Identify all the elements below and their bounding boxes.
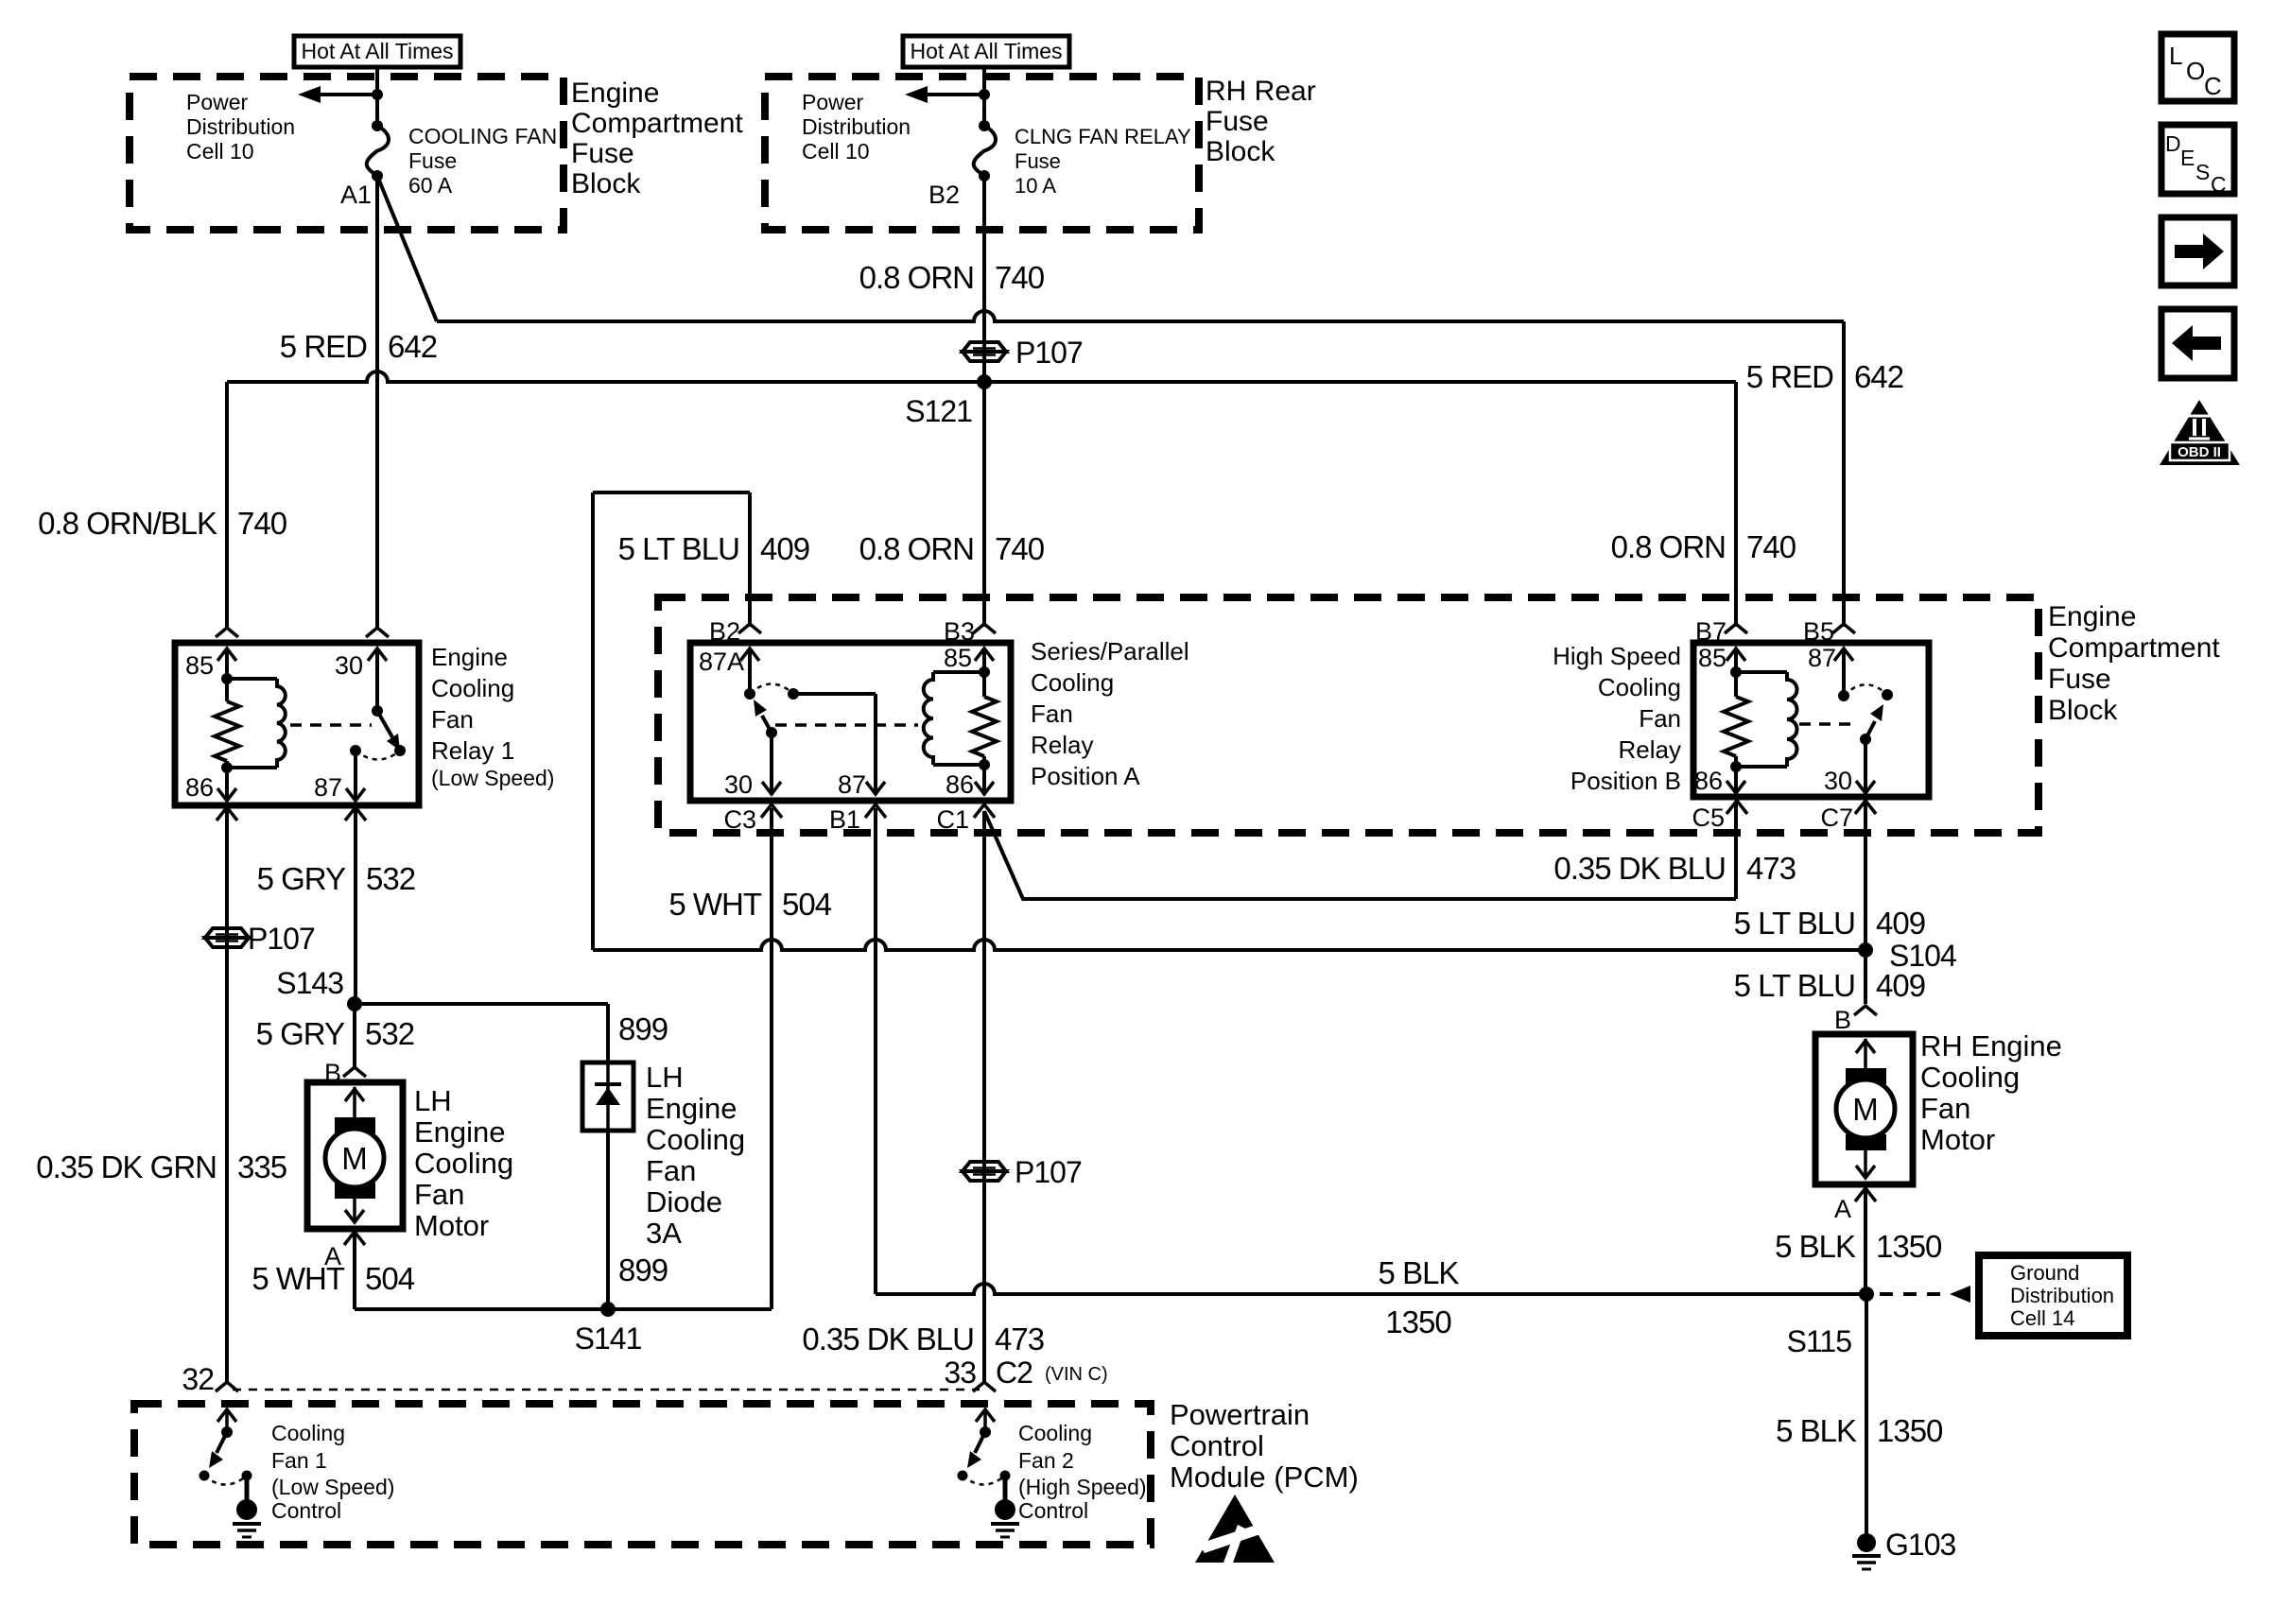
svg-text:5 RED: 5 RED [280,329,367,364]
connector pin: LH motor A [344,1232,365,1245]
pin label 85 (hs relay) [1698,644,1726,672]
connector pin: PCM 33 [973,1382,996,1391]
motor: LH Engine Cooling Fan Motor [307,1082,403,1229]
label: COOLING FAN Fuse 60 A [408,124,557,198]
connector pin: LH motor B [343,1067,366,1077]
svg-text:Power: Power [802,90,864,114]
pin label 86 (relay1) [185,773,214,802]
pin B2 (fuse) [928,181,960,209]
svg-text:409: 409 [1876,906,1925,941]
svg-text:(High Speed): (High Speed) [1018,1475,1147,1499]
svg-text:740: 740 [1746,529,1796,564]
svg-text:5 LT BLU: 5 LT BLU [1734,968,1855,1003]
svg-text:Fan: Fan [431,705,474,734]
pin label 32 [182,1362,214,1396]
svg-text:CLNG FAN RELAY: CLNG FAN RELAY [1015,125,1191,148]
svg-text:Ground: Ground [2010,1261,2079,1285]
svg-text:D: D [2165,131,2181,156]
connector pin: C5 [1692,801,1747,832]
wire: 5 BLK 1350 (B1 to S115) [876,808,1866,1294]
icon: forward arrow box [2161,217,2234,285]
connector pin: B2 (sp relay) [709,617,761,646]
svg-text:Cell 10: Cell 10 [802,139,870,164]
svg-text:C2: C2 [996,1356,1032,1390]
connector pin: B7 [1695,617,1747,646]
connector pin: RH motor A [1855,1188,1876,1201]
wire: 0.35 DK BLU 473 (C1 down to PCM pin 33) [982,811,986,1382]
label: Cooling Fan 1 (Low Speed) Control [271,1421,394,1523]
connector pin: B3 (sp relay) [944,617,996,646]
svg-text:86: 86 [1694,767,1723,795]
junction box: Hot At All Times (middle) [903,36,1069,67]
svg-text:High Speed: High Speed [1553,642,1681,670]
svg-text:Control: Control [271,1498,341,1523]
fuse block: Engine Compartment Fuse Block (dashed outline) [130,77,564,230]
svg-text:B2: B2 [928,181,960,209]
svg-text:O: O [2186,57,2205,85]
connector P107 (left) [205,922,315,956]
wire: 0.8 ORN 740 bus (S121 to relay B7 and to relay1 85) [227,371,1736,627]
svg-text:3A: 3A [646,1217,682,1250]
svg-text:Engine: Engine [2048,601,2136,632]
label: 5 LT BLU 409 (hook) [618,531,809,566]
label: 5 BLK 1350 (upper right) [1775,1229,1942,1264]
svg-text:S141: S141 [575,1322,642,1356]
wire: 5 BLK 1350 (RH motor A to S115) [1864,1184,1867,1294]
svg-text:86: 86 [946,770,974,799]
svg-text:C3: C3 [723,805,756,834]
svg-text:Distribution: Distribution [802,114,911,139]
svg-text:Relay 1: Relay 1 [431,736,514,765]
svg-text:Fuse: Fuse [2048,664,2111,695]
svg-text:642: 642 [1854,359,1903,394]
svg-text:RH Rear: RH Rear [1206,76,1316,107]
sp relay actuation dashed line [775,723,918,727]
label: 5 RED 642 (left) [280,329,437,364]
sp relay coil and resistor (85-86) [924,648,997,795]
label: Powertrain Control Module (PCM) [1170,1398,1359,1494]
svg-text:P107: P107 [1015,1155,1082,1189]
svg-text:Cooling: Cooling [1598,673,1681,701]
svg-text:85: 85 [185,651,214,680]
svg-text:B: B [1834,1006,1851,1034]
svg-text:Relay: Relay [1619,735,1681,764]
pin label 87 (sp relay) [838,770,866,799]
pin label B (RH motor) [1834,1006,1851,1034]
svg-text:Cooling: Cooling [414,1147,513,1180]
svg-text:Powertrain: Powertrain [1170,1398,1310,1431]
wire: 0.8 ORN 740 (fuse B2 through P107 to S121 and B3) [982,176,986,627]
svg-text:Fan 2: Fan 2 [1018,1448,1074,1473]
svg-text:S: S [2195,160,2210,184]
svg-text:Cooling: Cooling [1920,1061,2020,1094]
svg-text:335: 335 [237,1149,286,1184]
relay1 actuation dashed line [290,723,372,727]
label: RH Rear Fuse Block [1206,76,1316,167]
label: LH Engine Cooling Fan Motor [414,1084,513,1242]
pin label 87 (hs relay) [1808,644,1836,672]
svg-text:87: 87 [1808,644,1836,672]
icon: DESC box [2161,125,2234,197]
wire: 5 GRY 532 (relay1 87 down to LH motor B) [355,805,356,1067]
pin A1 [340,181,372,209]
pin label A (LH motor) [324,1242,341,1270]
fuse: CLNG FAN RELAY Fuse 10 A [974,120,996,181]
svg-text:Cooling: Cooling [646,1123,745,1156]
wire: 5 LT BLU 409 (C7 to S104 to RH motor B) [1864,800,1867,1004]
wire: battery feed into fuse A1 [375,67,379,123]
label: 5 LT BLU 409 (below S104) [1734,968,1925,1003]
svg-text:Cooling: Cooling [1031,668,1114,697]
svg-text:899: 899 [618,1253,668,1287]
svg-text:30: 30 [724,770,753,799]
svg-text:Fuse: Fuse [571,138,634,169]
icon: back arrow box [2161,309,2234,378]
svg-text:409: 409 [760,531,809,566]
svg-text:Engine: Engine [646,1092,737,1125]
label: Power Distribution Cell 10 (left) [186,90,295,164]
label: High Speed Cooling Fan Relay Position B [1553,642,1681,795]
svg-text:10 A: 10 A [1015,174,1056,198]
svg-text:Fan: Fan [646,1154,696,1187]
svg-text:L: L [2169,42,2182,70]
svg-text:Hot At All Times: Hot At All Times [301,39,453,63]
svg-text:87A: 87A [699,648,744,676]
svg-text:5 GRY: 5 GRY [256,1016,345,1051]
svg-text:Fan: Fan [1031,700,1073,728]
label: 5 BLK 1350 (middle) [1379,1255,1460,1339]
svg-text:Engine: Engine [571,78,659,109]
svg-text:30: 30 [1824,767,1852,795]
wire: 899 (S143 to diode) [355,1004,608,1063]
icon: LOC box [2161,34,2234,101]
node S141 [575,1302,642,1356]
svg-text:G103: G103 [1885,1528,1955,1562]
svg-text:P107: P107 [1015,336,1083,370]
svg-text:Block: Block [1206,136,1275,167]
svg-text:1350: 1350 [1877,1413,1943,1448]
svg-text:Fuse: Fuse [408,148,457,173]
svg-text:Cell 14: Cell 14 [2010,1306,2074,1330]
svg-text:87: 87 [314,773,342,802]
label: Engine Cooling Fan Relay 1 (Low Speed) [431,643,554,790]
dashed arrow to Ground Distribution Cell 14 [1880,1286,1970,1303]
svg-text:473: 473 [995,1322,1044,1356]
svg-text:A1: A1 [340,181,372,209]
svg-text:0.8 ORN/BLK: 0.8 ORN/BLK [38,506,217,541]
label: 0.8 ORN 740 (top middle) [859,260,1045,295]
label: 5 LT BLU 409 (above S104) [1734,906,1925,941]
svg-text:Block: Block [2048,695,2118,726]
svg-text:532: 532 [366,861,415,896]
label: Series/Parallel Cooling Fan Relay Position A [1031,637,1189,790]
pin label 87A [699,648,744,676]
connector pin: C3 [723,804,782,834]
svg-text:87: 87 [838,770,866,799]
node S143 [276,966,362,1011]
label: 5 WHT 504 (lower) [252,1261,414,1296]
svg-text:0.35 DK BLU: 0.35 DK BLU [1553,851,1726,886]
svg-text:Hot At All Times: Hot At All Times [910,39,1062,63]
svg-text:(Low Speed): (Low Speed) [271,1475,394,1499]
svg-text:Position B: Position B [1570,767,1681,795]
diode: LH Engine Cooling Fan Diode 3A [582,1063,633,1131]
wire: 0.35 DK GRN 335 (relay1 86 to PCM pin 32) [225,805,229,1382]
svg-text:Cooling: Cooling [431,674,514,702]
svg-text:0.8 ORN: 0.8 ORN [859,260,974,295]
svg-text:0.35 DK GRN: 0.35 DK GRN [36,1149,217,1184]
connector pin: B1 [829,804,886,834]
label: CLNG FAN RELAY Fuse 10 A [1015,125,1191,198]
label: 5 RED 642 (right) [1746,359,1903,394]
fuse: COOLING FAN Fuse 60 A [367,120,389,181]
svg-text:C1: C1 [936,805,969,834]
label: Engine Compartment Fuse Block (left) [571,78,743,199]
arrow: to Power Distribution Cell 10 (middle) [905,86,990,103]
label: Engine Compartment Fuse Block (right) [2048,601,2220,726]
relay box: High Speed Cooling Fan Relay [1693,643,1929,797]
svg-text:Cell 10: Cell 10 [186,139,254,164]
svg-text:S143: S143 [276,966,343,1000]
svg-text:5 BLK: 5 BLK [1379,1255,1460,1290]
connector pin: PCM 32 [216,1382,238,1391]
label: Cooling Fan 2 (High Speed) Control [1018,1421,1147,1523]
svg-text:504: 504 [782,887,832,922]
svg-text:86: 86 [185,773,214,802]
label: 0.35 DK BLU 473 (lower) [802,1322,1044,1356]
svg-text:RH Engine: RH Engine [1920,1029,2062,1063]
svg-text:5 WHT: 5 WHT [252,1261,345,1296]
svg-text:M: M [1852,1092,1879,1127]
svg-text:Motor: Motor [1920,1123,1995,1156]
svg-text:1350: 1350 [1876,1229,1942,1264]
svg-text:M: M [341,1141,368,1176]
svg-text:P107: P107 [248,922,315,956]
svg-text:Power: Power [186,90,249,114]
label: 5 GRY 532 (lower) [256,1016,415,1051]
relay1 coil and resistor (pins 85-86) [215,648,286,801]
label: 0.8 ORN 740 (above B3) [859,531,1045,566]
pin label B (LH motor) [324,1059,341,1087]
connector P107 (top) [963,336,1083,370]
icon: ESD warning triangle [1195,1494,1275,1563]
label: LH Engine Cooling Fan Diode 3A [646,1061,745,1250]
connector pin: C7 [1820,801,1876,832]
svg-text:Module (PCM): Module (PCM) [1170,1460,1359,1494]
pin label 87 (relay1) [314,773,342,802]
svg-text:Motor: Motor [414,1209,489,1242]
svg-text:Fuse: Fuse [1015,149,1061,173]
sp relay switch (87A common, 30 blade, 87 contact) [740,648,885,795]
pin label A (RH motor) [1834,1195,1851,1223]
svg-text:Cooling: Cooling [271,1421,345,1445]
pin label 30 (hs relay) [1824,767,1852,795]
svg-text:Position A: Position A [1031,762,1140,790]
svg-text:0.8 ORN: 0.8 ORN [859,531,974,566]
label: RH Engine Cooling Fan Motor [1920,1029,2062,1156]
svg-text:Control: Control [1018,1498,1088,1523]
pin label 86 (sp relay) [946,770,974,799]
svg-text:Diode: Diode [646,1185,722,1218]
pin label 33 and C2 (VIN C) [944,1356,1107,1390]
svg-text:0.8 ORN: 0.8 ORN [1611,529,1726,564]
connector pin: relay1 86 out [217,807,237,821]
label: 5 BLK 1350 (lower right) [1776,1413,1943,1448]
connector pin: relay1 85 [216,628,238,637]
wire: 0.35 DK BLU 473 (C1 to C5) [984,801,1736,899]
wire: battery feed into fuse B2 [982,67,986,123]
svg-text:B1: B1 [829,805,860,834]
wire: dashed connector line C2 (pin 32 to pin 33) [233,1389,980,1391]
icon: OBD II triangle [2160,400,2240,465]
svg-text:Control: Control [1170,1429,1264,1462]
ground G103 [1852,1528,1955,1569]
fuse block: RH Rear Fuse Block (dashed outline) [765,77,1199,230]
svg-text:740: 740 [995,260,1045,295]
svg-text:473: 473 [1746,851,1796,886]
svg-text:OBD II: OBD II [2178,444,2221,460]
junction box: Ground Distribution Cell 14 [1979,1255,2127,1336]
label: 5 GRY 532 (upper) [257,861,416,896]
wire: 5 RED 642 bus (fuse A1 via diagonal to relay B5) [377,176,1844,627]
svg-text:899: 899 [618,1011,668,1046]
svg-text:30: 30 [335,651,363,680]
pin label 85 (relay1) [185,651,214,680]
svg-text:C: C [2204,72,2222,100]
label: 0.8 ORN/BLK 740 [38,506,287,541]
svg-text:Series/Parallel: Series/Parallel [1031,637,1189,665]
svg-text:(VIN C): (VIN C) [1045,1364,1108,1385]
svg-text:5 BLK: 5 BLK [1776,1413,1857,1448]
relay box: Series/Parallel Cooling Fan Relay [690,643,1011,801]
svg-text:Engine: Engine [431,643,508,671]
svg-text:32: 32 [182,1362,214,1396]
hs relay switch (B5 common, 30 blade) [1834,648,1893,793]
svg-text:C7: C7 [1820,803,1853,832]
svg-text:A: A [1834,1195,1851,1223]
pin label 85 (sp relay) [944,644,972,672]
svg-text:Cooling: Cooling [1018,1421,1092,1445]
label: 899 (upper) [618,1011,668,1046]
svg-text:Relay: Relay [1031,731,1093,759]
svg-text:Distribution: Distribution [2010,1284,2114,1307]
svg-text:5 GRY: 5 GRY [257,861,346,896]
PCM switch: Cooling Fan 2 High Speed Control [958,1409,1020,1537]
svg-text:Compartment: Compartment [571,108,743,139]
node S121 [905,374,992,428]
relay box: Engine Cooling Fan Relay 1 [175,643,419,805]
svg-text:S115: S115 [1787,1324,1852,1358]
svg-text:E: E [2180,146,2195,170]
wire: 5 BLK 1350 (S115 to G103) [1865,1294,1868,1535]
label: 899 (lower) [618,1253,668,1287]
label: Power Distribution Cell 10 (middle) [802,90,911,164]
fuse block: Engine Compartment Fuse Block (relay section, dashed outline) [658,597,2039,833]
svg-text:504: 504 [365,1261,415,1296]
connector P107 (lower) [963,1155,1082,1189]
node S104 [1858,939,1956,973]
svg-text:5 LT BLU: 5 LT BLU [1734,906,1855,941]
svg-text:Engine: Engine [414,1115,506,1149]
svg-text:60 A: 60 A [408,173,453,198]
module box: Powertrain Control Module PCM (dashed outline) [134,1404,1151,1545]
svg-text:5 LT BLU: 5 LT BLU [618,531,739,566]
svg-text:85: 85 [1698,644,1726,672]
pin label 30 (sp relay) [724,770,753,799]
connector pin: C1 [936,804,995,834]
svg-text:5 WHT: 5 WHT [668,887,762,922]
svg-text:Distribution: Distribution [186,114,295,139]
svg-text:409: 409 [1876,968,1925,1003]
svg-text:Fan: Fan [414,1178,464,1211]
arrow: to Power Distribution Cell 10 (left) [298,86,383,103]
node S115 [1787,1287,1874,1358]
svg-text:Compartment: Compartment [2048,632,2220,664]
svg-text:C: C [2211,172,2227,197]
connector pin: RH motor B [1854,1006,1877,1015]
svg-text:Fuse: Fuse [1206,106,1269,137]
svg-text:740: 740 [995,531,1045,566]
connector pin: relay1 30 [366,628,389,637]
connector pin: relay1 87 out [345,807,366,821]
svg-text:0.35 DK BLU: 0.35 DK BLU [802,1322,974,1356]
wire: 5 LT BLU 409 (relay 87A/B2 hook to S104) [593,492,1866,950]
label: 5 WHT 504 (upper, C3) [668,887,831,922]
svg-text:33: 33 [944,1356,976,1390]
svg-text:532: 532 [365,1016,414,1051]
connector pin: B5 [1803,617,1855,646]
svg-text:85: 85 [944,644,972,672]
svg-text:5 BLK: 5 BLK [1775,1229,1856,1264]
svg-text:LH: LH [646,1061,684,1094]
svg-text:1350: 1350 [1385,1304,1451,1339]
svg-text:C5: C5 [1692,803,1725,832]
svg-text:Fan: Fan [1639,704,1681,733]
PCM switch: Cooling Fan 1 Low Speed Control [200,1409,262,1537]
pin label 30 (relay1) [335,651,363,680]
wire: 5 WHT 504 (motor A to series/parallel relay C3) [355,808,772,1309]
svg-text:COOLING FAN: COOLING FAN [408,124,557,148]
svg-text:LH: LH [414,1084,452,1117]
svg-text:642: 642 [388,329,437,364]
label: 0.8 ORN 740 (right) [1611,529,1796,564]
svg-text:Fan: Fan [1920,1092,1970,1125]
pin label 86 (hs relay) [1694,767,1723,795]
relay1 switch (pins 30-87) [346,648,406,801]
junction box: Hot At All Times (left) [294,36,460,67]
wire: 899 (diode to S141) [606,1131,610,1309]
svg-text:S121: S121 [905,394,972,428]
hs relay actuation dashed line [1799,722,1853,726]
label: 0.35 DK GRN 335 [36,1149,286,1184]
hs relay coil and resistor (85-86) [1724,648,1797,793]
wire: A1 to relay1 pin 30 [375,176,379,627]
svg-text:(Low Speed): (Low Speed) [431,766,554,790]
svg-text:Block: Block [571,168,641,199]
svg-text:5 RED: 5 RED [1746,359,1833,394]
svg-text:740: 740 [237,506,287,541]
motor: RH Engine Cooling Fan Motor [1815,1034,1913,1184]
label: 0.35 DK BLU 473 (upper) [1553,851,1796,886]
svg-text:Fan 1: Fan 1 [271,1448,327,1473]
